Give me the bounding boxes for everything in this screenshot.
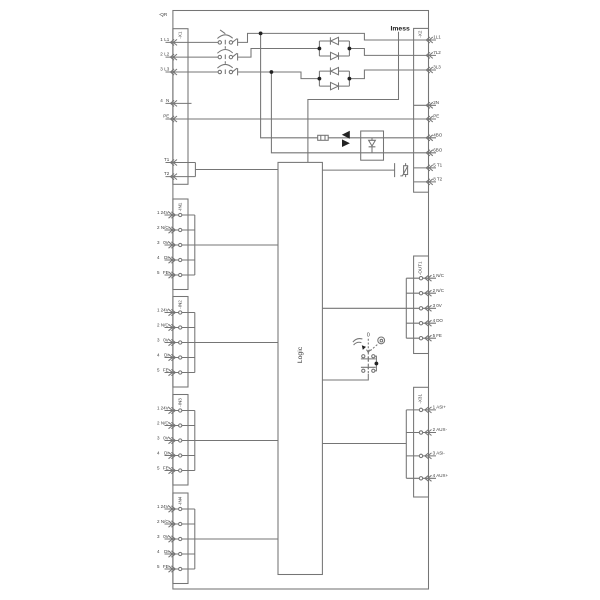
svg-text:-IN1: -IN1 — [178, 202, 183, 211]
svg-text:N/C: N/C — [161, 519, 170, 524]
svg-text:1: 1 — [157, 504, 160, 509]
svg-text:5: 5 — [157, 465, 160, 470]
svg-text:0V: 0V — [436, 303, 442, 308]
svg-text:L3: L3 — [164, 66, 170, 71]
svg-text:7L2: 7L2 — [433, 50, 441, 55]
svg-text:24V: 24V — [161, 210, 169, 215]
svg-text:0V: 0V — [163, 337, 169, 342]
svg-text:N/C: N/C — [436, 288, 445, 293]
svg-text:2: 2 — [433, 288, 436, 293]
svg-text:8: 8 — [433, 176, 436, 181]
svg-text:0V: 0V — [163, 240, 169, 245]
svg-text:3: 3 — [157, 240, 160, 245]
svg-text:2: 2 — [157, 519, 160, 524]
svg-text:ASi-: ASi- — [436, 451, 445, 456]
svg-text:1L1: 1L1 — [433, 35, 441, 40]
svg-text:T1: T1 — [437, 162, 443, 167]
svg-text:4: 4 — [433, 473, 436, 478]
svg-text:4BO: 4BO — [433, 132, 443, 137]
svg-text:T2: T2 — [164, 171, 170, 176]
svg-text:4: 4 — [157, 549, 160, 554]
svg-text:L2: L2 — [164, 52, 170, 57]
svg-text:DO: DO — [436, 318, 443, 323]
svg-text:3: 3 — [157, 534, 160, 539]
svg-text:FE: FE — [163, 564, 169, 569]
svg-text:2: 2 — [157, 420, 160, 425]
svg-text:-IN4: -IN4 — [178, 496, 183, 505]
svg-text:1: 1 — [157, 307, 160, 312]
svg-text:AUX-: AUX- — [436, 427, 447, 432]
svg-text:5: 5 — [157, 270, 160, 275]
svg-text:0V: 0V — [163, 435, 169, 440]
svg-text:2: 2 — [160, 52, 163, 57]
svg-text:1: 1 — [160, 37, 163, 42]
svg-text:0V: 0V — [163, 534, 169, 539]
svg-text:2: 2 — [433, 427, 436, 432]
svg-text:24V: 24V — [161, 405, 169, 410]
svg-text:Imess: Imess — [391, 26, 410, 33]
svg-text:T1: T1 — [164, 157, 170, 162]
svg-text:1: 1 — [157, 405, 160, 410]
svg-text:ASi+: ASi+ — [436, 405, 446, 410]
svg-text:5: 5 — [157, 564, 160, 569]
svg-text:-X2: -X2 — [418, 30, 423, 38]
svg-text:FE: FE — [163, 465, 169, 470]
svg-text:DI: DI — [164, 255, 169, 260]
svg-text:24V: 24V — [161, 504, 169, 509]
svg-text:-X31: -X31 — [418, 394, 423, 404]
svg-text:FE: FE — [163, 367, 169, 372]
svg-text:DI: DI — [164, 352, 169, 357]
svg-text:4: 4 — [157, 450, 160, 455]
svg-text:1: 1 — [433, 273, 436, 278]
svg-text:T2: T2 — [437, 176, 443, 181]
svg-text:2: 2 — [157, 225, 160, 230]
svg-text:AUX+: AUX+ — [436, 473, 448, 478]
svg-text:-X1: -X1 — [178, 31, 183, 39]
svg-text:3: 3 — [157, 435, 160, 440]
svg-text:PE: PE — [163, 113, 169, 118]
svg-text:DI: DI — [164, 549, 169, 554]
svg-text:Logic: Logic — [297, 346, 304, 363]
svg-text:N/C: N/C — [161, 225, 170, 230]
svg-text:4: 4 — [160, 98, 163, 103]
svg-text:0: 0 — [367, 333, 370, 339]
svg-text:-OUT1: -OUT1 — [418, 261, 423, 275]
svg-text:DI: DI — [164, 450, 169, 455]
svg-text:6BO: 6BO — [433, 147, 443, 152]
svg-text:N/C: N/C — [436, 273, 445, 278]
svg-text:N/C: N/C — [161, 322, 170, 327]
svg-text:-IN3: -IN3 — [178, 398, 183, 407]
svg-text:24V: 24V — [161, 307, 169, 312]
svg-text:2: 2 — [157, 322, 160, 327]
svg-text:3: 3 — [160, 66, 163, 71]
svg-text:-IN2: -IN2 — [178, 300, 183, 309]
svg-text:3: 3 — [433, 451, 436, 456]
svg-text:4: 4 — [433, 318, 436, 323]
svg-text:5: 5 — [433, 162, 436, 167]
svg-text:2N: 2N — [433, 100, 439, 105]
svg-text:PE: PE — [433, 114, 439, 119]
svg-text:5: 5 — [433, 333, 436, 338]
svg-text:4: 4 — [157, 255, 160, 260]
svg-text:FE: FE — [436, 333, 442, 338]
svg-text:1: 1 — [157, 210, 160, 215]
svg-text:3L3: 3L3 — [433, 65, 441, 70]
svg-text:L1: L1 — [164, 37, 170, 42]
svg-text:FE: FE — [163, 270, 169, 275]
svg-text:5: 5 — [157, 367, 160, 372]
svg-text:3: 3 — [157, 337, 160, 342]
svg-text:N: N — [166, 98, 169, 103]
svg-text:3: 3 — [433, 303, 436, 308]
svg-text:4: 4 — [157, 352, 160, 357]
svg-text:N/C: N/C — [161, 420, 170, 425]
svg-text:1: 1 — [433, 405, 436, 410]
svg-text:-QR: -QR — [159, 12, 168, 17]
